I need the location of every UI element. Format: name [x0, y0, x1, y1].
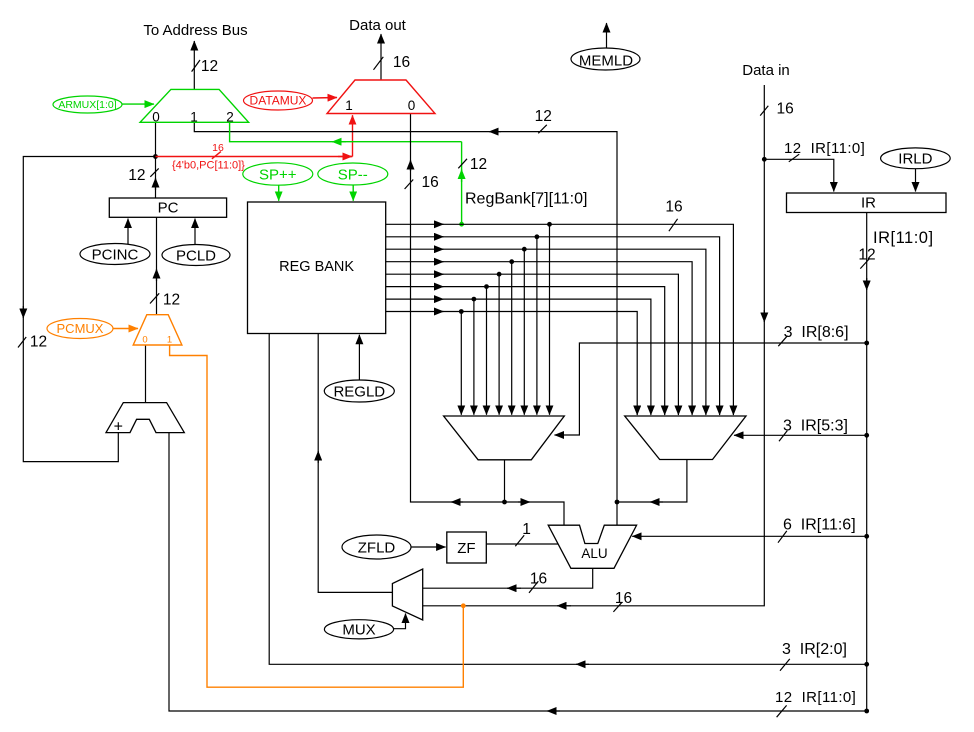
svg-text:MUX: MUX: [342, 622, 375, 639]
svg-text:1: 1: [167, 335, 172, 346]
junction IR tap nodes: [864, 341, 869, 346]
wire IRLD to IR: [915, 169, 917, 192]
control SP++ ellipse: [243, 163, 313, 185]
svg-text:6 IR[11:6]: 6 IR[11:6]: [783, 517, 856, 534]
wire right mux output: [617, 460, 687, 503]
control REGLD ellipse: [324, 380, 394, 402]
wire adder output to PCMUX input 0: [145, 345, 147, 403]
svg-text:PC: PC: [158, 200, 179, 217]
wire PC output up to ARMUX input 0: [150, 122, 158, 198]
svg-text:IR[11:0]: IR[11:0]: [873, 229, 934, 247]
wire ZF to ALU: [487, 535, 559, 546]
svg-text:PCINC: PCINC: [92, 246, 139, 263]
svg-text:+: +: [114, 419, 123, 436]
svg-text:1: 1: [190, 109, 198, 124]
svg-text:3 IR[2:0]: 3 IR[2:0]: [782, 641, 847, 658]
junction right mux output node: [615, 500, 620, 505]
alu ALU: [548, 525, 636, 568]
wire SP++ to REG BANK: [278, 185, 280, 201]
wire SP-- to REG BANK: [352, 185, 354, 201]
wire orange PCMUX input 1 from MUX output node: [170, 345, 464, 687]
wire DATAMUX input 0 / reg read bus: [405, 114, 564, 526]
svg-text:3 IR[8:6]: 3 IR[8:6]: [784, 324, 849, 341]
svg-text:0: 0: [408, 98, 416, 113]
svg-text:MEMLD: MEMLD: [579, 52, 633, 69]
wire ZFLD to ZF: [411, 546, 446, 548]
wire PC feedback to adder (left loop): [18, 157, 156, 462]
svg-text:12: 12: [30, 334, 47, 351]
control ZFLD ellipse: [342, 535, 411, 559]
svg-text:12 IR[11:0]: 12 IR[11:0]: [784, 140, 865, 157]
svg-text:{4'b0,PC[11:0]}: {4'b0,PC[11:0]}: [172, 159, 245, 171]
svg-text:1: 1: [522, 521, 531, 538]
svg-text:Data out: Data out: [349, 17, 407, 34]
svg-text:REGLD: REGLD: [333, 383, 385, 400]
wire IR output vertical: [860, 213, 869, 711]
svg-text:12: 12: [470, 156, 487, 173]
wire IR[8:6] to left mux select: [555, 336, 867, 435]
wire DATAMUX output Data out: [374, 34, 384, 80]
wire ARMUX input 2 green from RegBank[7]: [230, 122, 462, 224]
mux ARMUX (green trapezoid): [140, 89, 249, 124]
wire PCLD to PC: [194, 219, 196, 246]
control SP-- ellipse: [318, 163, 388, 185]
control ARMUX[1:0] ellipse: [53, 96, 122, 113]
svg-text:16: 16: [393, 54, 410, 71]
svg-text:RegBank[7][11:0]: RegBank[7][11:0]: [465, 191, 587, 208]
wire PCINC to PC: [127, 219, 129, 245]
wire reg bank output bus line 5: [386, 274, 679, 415]
svg-text:16: 16: [530, 571, 547, 588]
svg-text:SP--: SP--: [338, 166, 368, 183]
wire reg bank output bus line 6: [386, 287, 665, 415]
svg-text:2: 2: [226, 109, 234, 124]
svg-text:REG BANK: REG BANK: [279, 259, 354, 275]
junction orange node on data line: [461, 603, 466, 608]
svg-text:IR: IR: [861, 195, 876, 212]
svg-text:12: 12: [128, 167, 145, 184]
svg-text:12: 12: [201, 58, 218, 75]
wire PCMUX output to PC: [150, 217, 159, 314]
svg-text:3 IR[5:3]: 3 IR[5:3]: [783, 418, 848, 435]
wire ARMUX select arrow: [122, 103, 154, 105]
svg-text:ZF: ZF: [457, 540, 475, 557]
control PCMUX ellipse: [47, 319, 113, 339]
svg-text:SP++: SP++: [259, 166, 297, 183]
svg-text:16: 16: [615, 590, 632, 607]
junction left mux output node: [502, 500, 507, 505]
wire reg bank output bus line 3: [386, 249, 706, 415]
wire ALU output to MUX: [423, 568, 593, 593]
svg-text:16: 16: [665, 199, 682, 216]
register PC: [109, 198, 226, 217]
wire left mux output: [504, 460, 506, 502]
wire {4'b0,PC[11:0]} red to DATAMUX input 1: [156, 115, 353, 159]
wire REGLD to REG BANK: [358, 335, 360, 380]
wire reg bank output bus line 1: [386, 224, 734, 415]
svg-text:PCMUX: PCMUX: [57, 321, 104, 336]
svg-text:0: 0: [142, 335, 147, 346]
svg-text:16: 16: [777, 100, 794, 117]
control IRLD ellipse: [881, 148, 951, 169]
svg-text:ARMUX[1:0]: ARMUX[1:0]: [58, 99, 116, 111]
mux PCMUX (orange trapezoid): [133, 315, 182, 346]
register IR: [787, 193, 947, 213]
svg-text:To Address Bus: To Address Bus: [143, 22, 247, 39]
mux right 8:1: [625, 416, 746, 460]
control DATAMUX ellipse: [244, 91, 313, 110]
wire MUX select: [394, 614, 406, 629]
svg-text:Data in: Data in: [742, 62, 790, 79]
control PCLD ellipse: [162, 245, 230, 266]
adder (+): [106, 403, 184, 436]
junction PC output node: [153, 154, 158, 159]
control MUX ellipse: [324, 620, 393, 639]
mux DATAMUX (red trapezoid): [327, 80, 435, 114]
wire reg bank output bus line 2: [386, 237, 720, 415]
wire reg bank output bus line 8: [386, 312, 638, 416]
wire IR[11:6] to ALU: [632, 531, 867, 543]
wire ARMUX output to Address Bus: [192, 41, 200, 89]
wire MEMLD up arrow: [606, 23, 608, 48]
wire IR[5:3] to right mux select: [734, 431, 867, 442]
svg-text:12 IR[11:0]: 12 IR[11:0]: [775, 689, 856, 706]
register ZF: [447, 532, 487, 563]
wire MUX output to REG BANK: [318, 334, 392, 593]
svg-text:DATAMUX: DATAMUX: [250, 94, 307, 108]
svg-text:ALU: ALU: [581, 546, 607, 561]
register REG BANK: [248, 202, 386, 334]
svg-text:1: 1: [345, 98, 353, 113]
control MEMLD ellipse: [571, 48, 640, 70]
svg-text:12: 12: [858, 246, 875, 263]
wire ARMUX input 1 from right-mux output node (12): [194, 122, 617, 525]
control PCINC ellipse: [80, 244, 150, 265]
wire Data in branch to IR: [762, 157, 767, 162]
wire IR[11:0] to adder: [169, 433, 867, 718]
mux MUX (small, left-pointing): [392, 569, 422, 620]
wire reg bank output bus line 7: [386, 299, 651, 415]
svg-text:PCLD: PCLD: [176, 247, 216, 264]
wire PCMUX select arrow: [113, 328, 138, 330]
wire DATAMUX select arrow: [313, 97, 338, 100]
wire IR[2:0] to REG BANK select: [269, 334, 867, 671]
svg-text:12: 12: [163, 292, 180, 309]
wire Data in: [423, 85, 769, 612]
svg-text:16: 16: [212, 142, 224, 154]
wire reg bank output bus line 4: [386, 262, 692, 415]
mux left 8:1: [444, 416, 565, 460]
svg-text:0: 0: [152, 109, 160, 124]
junction RegBank[7] green node: [459, 222, 464, 227]
svg-text:ZFLD: ZFLD: [358, 539, 396, 556]
svg-text:16: 16: [422, 174, 439, 191]
svg-text:12: 12: [535, 108, 552, 125]
svg-text:IRLD: IRLD: [898, 150, 932, 167]
